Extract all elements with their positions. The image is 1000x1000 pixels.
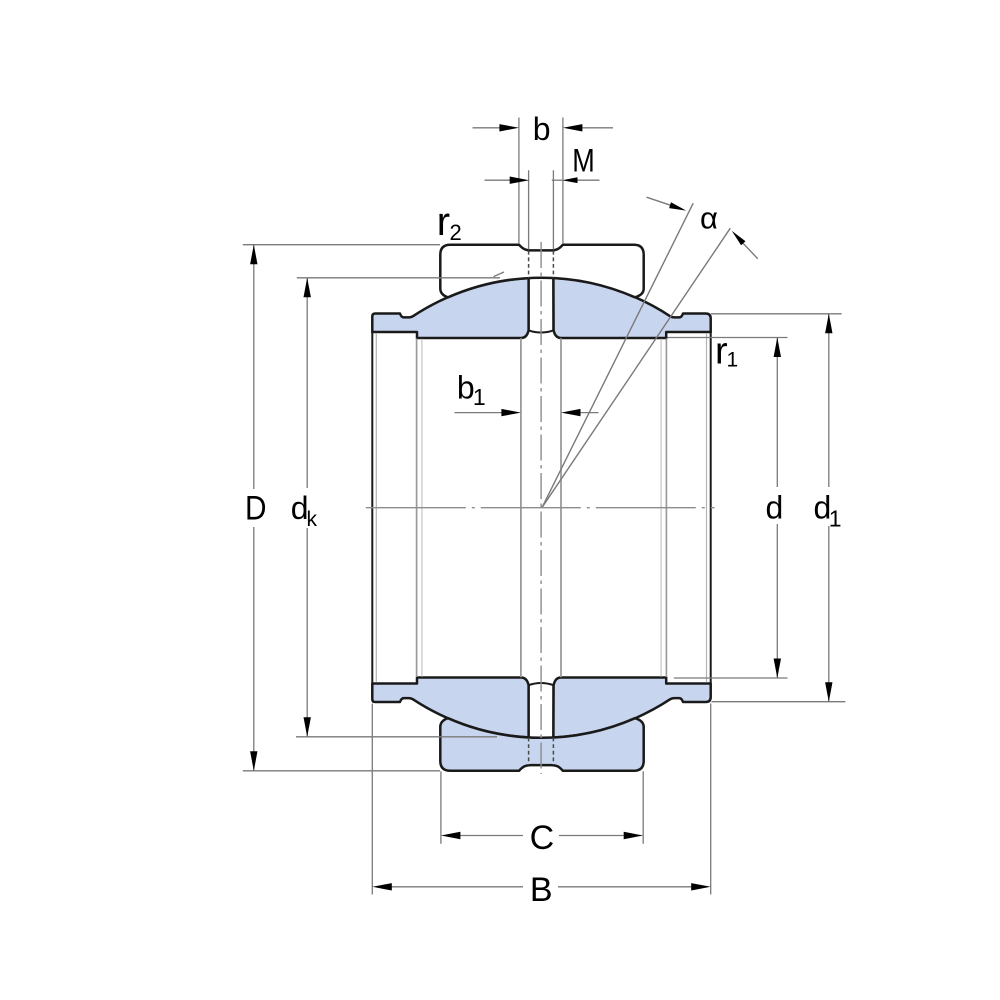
bore lubrication groove bottom upper [529, 330, 554, 332]
bore lubrication groove edge projection left [520, 338, 522, 677]
sphere surface seen through hole lower [529, 736, 554, 738]
M dimension line [485, 179, 511, 181]
sphere surface seen through hole upper [529, 277, 554, 279]
outer ring lower section (blue) [440, 718, 643, 771]
misalignment line B [542, 228, 730, 507]
svg-text:b: b [533, 111, 551, 147]
inner ring lower section right of lube hole [553, 678, 710, 738]
D arrows [250, 245, 257, 265]
angle arrow upper [647, 197, 674, 206]
dk extension lines [297, 277, 500, 279]
chamfer projection right [706, 333, 708, 683]
d dimension line [776, 338, 778, 488]
b arrows [499, 124, 519, 131]
recess step chamfer projection left [421, 339, 423, 677]
d1 extension lines [711, 313, 842, 315]
svg-text:1: 1 [829, 506, 842, 532]
svg-text:k: k [307, 508, 318, 531]
bore edge projection left face [371, 331, 373, 685]
D dimension line [253, 245, 255, 489]
dk arrows [304, 278, 311, 298]
horizontal centre line [366, 507, 715, 509]
d arrows [774, 338, 781, 358]
svg-text:M: M [572, 143, 595, 179]
M arrows [510, 177, 530, 184]
svg-text:2: 2 [450, 220, 462, 245]
svg-text:1: 1 [473, 384, 486, 410]
recess step projection right [665, 339, 667, 678]
misalignment line A [542, 203, 693, 507]
b1 arrows [501, 409, 521, 416]
svg-text:B: B [530, 871, 553, 909]
chamfer projection left [375, 333, 377, 683]
C arrows [441, 832, 461, 839]
d1 dimension line [828, 314, 830, 487]
svg-text:d: d [766, 490, 784, 526]
bore lubrication groove bottom lower [529, 683, 554, 685]
inner ring upper section left of lube hole (sphered, blue) [372, 278, 528, 338]
hidden hole outline lower [528, 738, 530, 765]
B dimension line [390, 886, 524, 888]
lubrication hole wall upper left [527, 278, 529, 330]
svg-text:D: D [245, 489, 267, 527]
svg-text:r: r [437, 200, 450, 244]
angle arrow lower [743, 243, 758, 259]
b1 dimension line [455, 412, 506, 414]
recess step chamfer projection right [660, 339, 662, 677]
d extension lines [668, 337, 788, 339]
lubrication hole wall lower right [552, 685, 554, 737]
B arrows [372, 883, 392, 890]
b extension lines [518, 118, 520, 244]
C extension lines [440, 771, 442, 844]
lubrication hole wall lower left [527, 685, 529, 737]
lubrication hole wall upper right [552, 278, 554, 330]
D extension lines [243, 244, 440, 246]
d1 arrows [825, 314, 832, 334]
bore lubrication groove edge projection right [560, 338, 562, 677]
C dimension line [458, 835, 523, 837]
outer ring upper section (white) [440, 245, 643, 298]
inner ring upper section right of lube hole [553, 278, 710, 338]
svg-text:1: 1 [727, 349, 739, 372]
inner ring lower section left of lube hole (sphered, blue) [372, 678, 528, 738]
hidden hole outline upper [529, 251, 554, 765]
B extension lines [371, 704, 373, 895]
vertical centre line [540, 242, 542, 774]
bore edge projection right face [710, 331, 712, 685]
svg-text:α: α [700, 201, 718, 236]
svg-text:C: C [530, 819, 555, 857]
recess step projection left [416, 339, 418, 678]
M extension lines [528, 170, 530, 249]
b dimension line [473, 127, 505, 129]
dk dimension line [306, 278, 308, 488]
